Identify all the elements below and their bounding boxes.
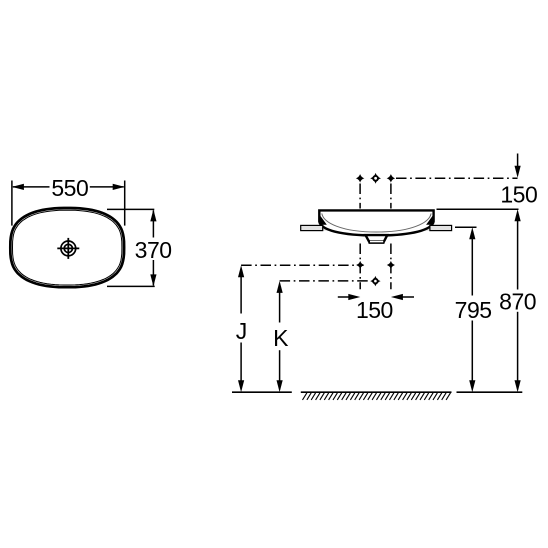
dim 550 arrow right (113, 184, 125, 190)
basin right corner fillet (426, 216, 433, 225)
dim J line lower segment (240, 343, 242, 382)
dim K line upper segment (279, 292, 281, 323)
drain crosshair inner circle (64, 244, 72, 252)
supply centerline J horizontal (241, 264, 363, 266)
dim 795 line upper segment (471, 238, 473, 296)
dim 870 line upper segment (517, 220, 519, 290)
countertop left (301, 225, 323, 230)
tap-hole centerline horizontal (top) (396, 177, 518, 179)
svg-text:K: K (273, 325, 289, 351)
dim J line upper segment (240, 276, 242, 314)
dim 795 upper arrow (469, 227, 475, 239)
tap-hole centerline right vertical (390, 184, 392, 209)
dim K upper arrow (277, 281, 283, 293)
dim 150 (bottom) right arrow (391, 294, 403, 300)
dim 150 (top) arrow shaft (517, 154, 519, 168)
tap-hole marker middle (ringed) (370, 173, 381, 184)
dim 370 extension line top (107, 208, 154, 210)
dim 870 upper arrow (515, 209, 521, 221)
hole centerline left vertical (below bowl) (359, 244, 361, 290)
svg-text:870: 870 (499, 288, 536, 314)
supply marker left (356, 261, 364, 269)
svg-text:150: 150 (356, 297, 393, 323)
svg-text:J: J (236, 318, 247, 344)
dim K lower arrow (277, 380, 283, 392)
basin outer rim (oval) (10, 208, 124, 287)
hole centerline right vertical (below bowl) (390, 244, 392, 290)
dim 150 (bottom) left shaft (338, 296, 352, 298)
dim 550 line left segment (13, 186, 50, 188)
tap-hole marker left (356, 174, 365, 183)
basin body (section) (319, 210, 433, 235)
drain outlet trapezoid (366, 235, 388, 243)
drain cross horizontal (57, 247, 79, 249)
dim 550 line right segment (90, 186, 124, 188)
dim 370 line lower segment (152, 260, 154, 285)
floor line right segment (457, 391, 523, 393)
supply marker right (387, 261, 395, 269)
dim 550 extension line left (11, 181, 13, 226)
dim 870 lower arrow (515, 380, 521, 392)
floor hatching (303, 393, 451, 400)
drain cross vertical (67, 238, 69, 259)
dim 870 line lower segment (517, 312, 519, 382)
drain centerline K horizontal (280, 280, 371, 282)
svg-text:370: 370 (135, 237, 172, 263)
dim 550 arrow left (12, 184, 24, 190)
dim 795 lower arrow (469, 380, 475, 392)
svg-text:150: 150 (500, 181, 537, 207)
dim 150 (bottom) left arrow (348, 294, 360, 300)
dim 150 (top) arrow (515, 166, 521, 178)
dim 150 (bottom) right shaft (400, 296, 414, 298)
basin inner rim line (13, 210, 122, 285)
drain crosshair outer circle (61, 241, 76, 256)
floor line hatched segment (301, 391, 452, 393)
floor line left segment (232, 391, 292, 393)
countertop right (430, 225, 452, 230)
basin left corner fillet (320, 216, 327, 225)
dim 370 line upper segment (152, 210, 154, 237)
countertop middle (behind basin) (322, 225, 431, 230)
basin inner rim curve (322, 213, 431, 232)
dim 795 line lower segment (471, 321, 473, 382)
dim J lower arrow (238, 380, 244, 392)
dim 370 arrow down (150, 274, 156, 286)
svg-text:550: 550 (51, 175, 88, 201)
drain outlet slot (370, 241, 383, 243)
dim 370 extension line bottom (107, 285, 155, 287)
dim 550 extension line right (124, 181, 126, 226)
dim 370 arrow up (150, 209, 156, 221)
extension line counter to 795 (455, 226, 477, 228)
dim J upper arrow (238, 265, 244, 277)
drain outlet bottom band (368, 240, 384, 244)
tap-hole centerline left vertical (359, 184, 361, 209)
tap-hole marker right (387, 174, 396, 183)
extension line rim to 870 (437, 208, 519, 210)
drain marker (ringed) (370, 276, 380, 286)
dim K line lower segment (279, 350, 281, 381)
svg-text:795: 795 (455, 297, 492, 323)
